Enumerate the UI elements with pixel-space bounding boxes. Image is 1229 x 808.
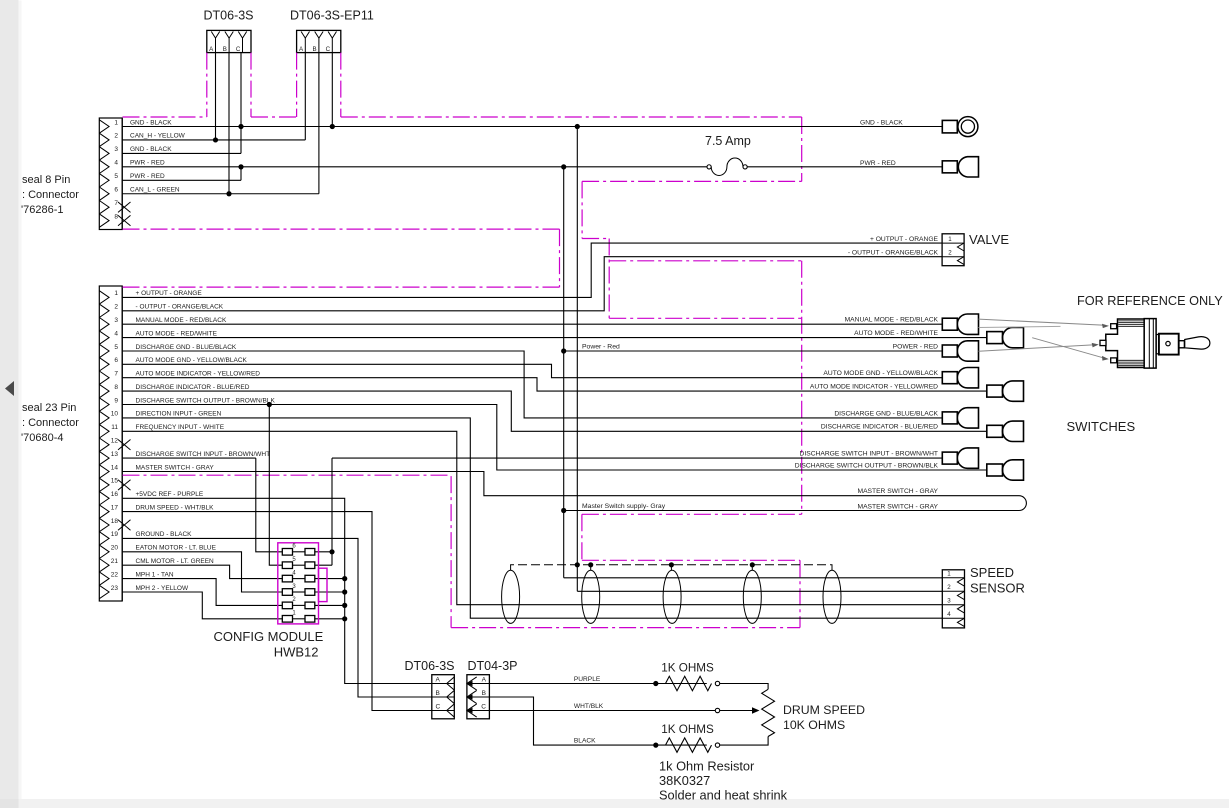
svg-text:6: 6 xyxy=(114,357,118,364)
8-pin pin 8 xyxy=(99,214,109,227)
svg-text:4: 4 xyxy=(114,160,118,167)
svg-text:1k Ohm Resistor: 1k Ohm Resistor xyxy=(659,759,755,774)
svg-text:14: 14 xyxy=(111,464,119,471)
wire resistor R1 to pot top xyxy=(720,684,768,690)
svg-text:1: 1 xyxy=(948,236,952,243)
wire DT06-3S-EP11 A stub xyxy=(304,53,306,140)
8-pin pin 1 xyxy=(99,120,109,133)
wire sensor 2 (ground) from trunk xyxy=(577,590,942,592)
svg-text:AUTO MODE INDICATOR - YELLOW/R: AUTO MODE INDICATOR - YELLOW/RED xyxy=(810,384,938,391)
svg-text:6: 6 xyxy=(114,187,118,194)
svg-text:A: A xyxy=(482,677,487,684)
svg-text:MPH 2 - YELLOW: MPH 2 - YELLOW xyxy=(136,585,189,592)
23-pin pin 12 xyxy=(99,438,109,451)
wire pin13 drop to config row6 xyxy=(256,458,282,552)
svg-text:DRUM SPEED - WHT/BLK: DRUM SPEED - WHT/BLK xyxy=(136,504,215,511)
23-pin pin 18 xyxy=(99,518,109,531)
bullet terminal PWR xyxy=(942,161,957,173)
left grey sidebar xyxy=(0,0,19,801)
svg-text:15: 15 xyxy=(111,478,119,485)
svg-text:GND - BLACK: GND - BLACK xyxy=(860,119,903,126)
terminal DISCHARGE SWITCH OUTPUT xyxy=(987,464,1003,476)
wire AUTO MODE GND pin6 jog xyxy=(122,364,942,377)
23-pin pin 10 xyxy=(99,411,109,424)
wire DISCHARGE INDICATOR pin8 jog xyxy=(122,391,987,431)
terminal DISCHARGE SWITCH INPUT xyxy=(942,452,957,464)
svg-text:11: 11 xyxy=(111,424,118,431)
23-pin pin 22 xyxy=(99,572,109,585)
8-pin pin 5 xyxy=(99,174,109,187)
wire pin21 CML to config row4 xyxy=(122,565,282,578)
svg-text:C: C xyxy=(236,46,241,53)
svg-text:DT06-3S: DT06-3S xyxy=(204,9,254,23)
svg-text:8: 8 xyxy=(114,213,118,220)
svg-text:+5VDC REF - PURPLE: +5VDC REF - PURPLE xyxy=(136,491,204,498)
svg-text:: Connector: : Connector xyxy=(22,417,79,429)
svg-text:GND - BLACK: GND - BLACK xyxy=(130,119,172,126)
svg-text:MPH 1 - TAN: MPH 1 - TAN xyxy=(136,571,174,578)
wire config row6/5 bus to DISCHARGE SWITCH INPUT xyxy=(315,458,332,565)
svg-text:1: 1 xyxy=(114,290,118,297)
toggle switch bat lever xyxy=(1185,337,1210,349)
svg-text:22: 22 xyxy=(111,571,119,578)
terminal AUTO MODE xyxy=(987,332,1003,344)
terminal POWER RED xyxy=(942,345,957,357)
svg-text:A: A xyxy=(436,677,441,684)
23-pin pin 5 xyxy=(99,344,109,357)
DT06-3S socket C xyxy=(238,32,246,39)
svg-text:DISCHARGE SWITCH INPUT - BROWN: DISCHARGE SWITCH INPUT - BROWN/WHT xyxy=(800,451,938,458)
23-pin pin 21 xyxy=(99,559,109,572)
config jumper row 2 xyxy=(282,602,292,609)
wire trunk PWR vertical xyxy=(563,167,565,578)
toggle switch mounting plate xyxy=(1144,319,1156,369)
DT06-3S socket A xyxy=(211,32,219,39)
wire pin4 PWR-RED to fuse xyxy=(122,166,707,168)
svg-text:C: C xyxy=(326,46,331,53)
wire AUTO MODE pin4 straight xyxy=(122,337,987,339)
sidebar collapse arrow xyxy=(5,381,14,396)
8-pin pin 7 xyxy=(99,201,109,214)
svg-text:18: 18 xyxy=(111,518,119,525)
wire DISCHARGE SWITCH OUTPUT pin9 jog xyxy=(122,405,987,471)
svg-text:DISCHARGE INDICATOR - BLUE/RED: DISCHARGE INDICATOR - BLUE/RED xyxy=(136,384,250,391)
svg-text:GROUND - BLACK: GROUND - BLACK xyxy=(136,531,193,538)
wire MASTER SWITCH pin14 jog and loop xyxy=(122,472,1026,511)
23-pin pin 11 xyxy=(99,425,109,438)
23-pin pin 2 xyxy=(99,304,109,317)
svg-text:B: B xyxy=(436,690,440,697)
wire WHT/BLK from DT04-3P C (wiper) xyxy=(489,710,715,712)
wire pin20 EATON to config row3 xyxy=(122,552,282,592)
wire POWER - RED from trunk xyxy=(564,350,943,352)
svg-text:B: B xyxy=(482,690,486,697)
potentiometer DRUM SPEED 10K OHMS xyxy=(762,689,775,736)
23-pin pin 20 xyxy=(99,545,109,558)
svg-text:12: 12 xyxy=(111,438,119,445)
svg-text:PWR - RED: PWR - RED xyxy=(860,160,896,167)
svg-text:CML MOTOR - LT. GREEN: CML MOTOR - LT. GREEN xyxy=(136,558,215,565)
wire +5VDC bus pin16 to DT06-3S A xyxy=(122,498,432,683)
connector VALVE body xyxy=(942,234,964,266)
cable loom ellipses xyxy=(502,570,520,623)
svg-text:PURPLE: PURPLE xyxy=(574,676,601,683)
config jumper row 1 xyxy=(282,616,292,623)
wire pin1 GND-BLACK to ring terminal xyxy=(122,126,942,128)
svg-text:PWR - RED: PWR - RED xyxy=(130,173,165,180)
svg-text:+ OUTPUT - ORANGE: + OUTPUT - ORANGE xyxy=(136,290,203,297)
svg-text:7: 7 xyxy=(114,371,118,378)
wire AUTO MODE INDICATOR pin7 jog xyxy=(122,378,987,391)
svg-text:DISCHARGE GND - BLUE/BLACK: DISCHARGE GND - BLUE/BLACK xyxy=(136,344,237,351)
toggle switch shaft xyxy=(1179,341,1185,348)
23-pin pin 8 xyxy=(99,384,109,397)
config jumper row 5 xyxy=(282,562,292,569)
wire +OUTPUT-ORANGE pin1 to valve xyxy=(122,243,942,297)
23-pin pin 6 xyxy=(99,358,109,371)
23-pin pin 4 xyxy=(99,331,109,344)
svg-text:C: C xyxy=(436,704,441,711)
svg-text:SPEED: SPEED xyxy=(970,565,1014,580)
svg-text:4: 4 xyxy=(947,611,951,618)
svg-text:7: 7 xyxy=(114,200,118,207)
toggle switch arrows from terminals xyxy=(979,319,1106,325)
svg-text:13: 13 xyxy=(111,451,119,458)
svg-text:'76286-1: '76286-1 xyxy=(21,204,63,216)
wire PURPLE from DT04-3P A xyxy=(489,683,706,685)
svg-text:EATON MOTOR - LT. BLUE: EATON MOTOR - LT. BLUE xyxy=(136,545,217,552)
svg-text:DT06-3S-EP11: DT06-3S-EP11 xyxy=(290,9,374,23)
wire pin2 CAN_H-YELLOW xyxy=(122,139,305,141)
23-pin pin 1 xyxy=(99,291,109,304)
svg-text:GND - BLACK: GND - BLACK xyxy=(130,146,172,153)
svg-text:3: 3 xyxy=(114,146,118,153)
wire pin23 MPH2 to config row1 xyxy=(122,592,282,619)
config jumper row 3 xyxy=(282,589,292,596)
svg-text:CAN_H - YELLOW: CAN_H - YELLOW xyxy=(130,133,186,140)
terminal DISCHARGE INDICATOR xyxy=(987,425,1003,437)
toggle switch body xyxy=(1106,319,1144,368)
8-pin pin 4 xyxy=(99,160,109,173)
wire DT06-3S-EP11 C stub xyxy=(331,53,333,127)
CONFIG MODULE HWB12 outline xyxy=(278,543,319,624)
wire fuse to spade terminal PWR xyxy=(747,166,942,168)
svg-text:3: 3 xyxy=(114,317,118,324)
svg-text:VALVE: VALVE xyxy=(969,232,1009,247)
svg-text:3: 3 xyxy=(947,598,951,605)
connector SPEED SENSOR body xyxy=(942,570,964,628)
23-pin pin 17 xyxy=(99,505,109,518)
svg-text:DISCHARGE GND - BLUE/BLACK: DISCHARGE GND - BLUE/BLACK xyxy=(834,410,938,417)
wire GROUND pin19 to DT06-3S B xyxy=(122,538,432,697)
svg-text:SWITCHES: SWITCHES xyxy=(1067,419,1136,434)
svg-text:DT06-3S: DT06-3S xyxy=(404,659,454,673)
svg-text:5: 5 xyxy=(114,344,118,351)
svg-text:1: 1 xyxy=(947,571,951,578)
svg-text:20: 20 xyxy=(111,545,119,552)
svg-text:9: 9 xyxy=(114,397,118,404)
svg-text:MANUAL MODE - RED/BLACK: MANUAL MODE - RED/BLACK xyxy=(845,317,939,324)
23-pin pin 13 xyxy=(99,451,109,464)
connector DT06-3S-EP11 (top) body xyxy=(297,30,341,52)
svg-text:1: 1 xyxy=(114,119,118,126)
svg-text:WHT/BLK: WHT/BLK xyxy=(574,703,604,710)
wire DISCHARGE GND pin5 jog xyxy=(122,351,942,418)
DT06-3S-EP11 socket C xyxy=(328,32,336,39)
connector DT06-3S (bottom) body xyxy=(432,675,455,719)
svg-text:DRUM SPEED: DRUM SPEED xyxy=(783,703,865,717)
svg-text:2: 2 xyxy=(114,133,118,140)
terminal AUTO MODE INDICATOR xyxy=(987,385,1003,397)
svg-text:DISCHARGE INDICATOR - BLUE/RED: DISCHARGE INDICATOR - BLUE/RED xyxy=(821,424,938,431)
svg-text:7.5 Amp: 7.5 Amp xyxy=(705,134,751,148)
svg-text:HWB12: HWB12 xyxy=(274,644,319,659)
svg-text:Solder and heat shrink: Solder and heat shrink xyxy=(659,788,788,803)
wire pin5 PWR-RED xyxy=(122,179,241,181)
bottom scrollbar strip xyxy=(0,799,1229,808)
wire sensor 1 (power) from trunk xyxy=(564,577,943,579)
wire resistor R2 to pot bottom xyxy=(720,737,768,746)
svg-text:DISCHARGE SWITCH INPUT - BROWN: DISCHARGE SWITCH INPUT - BROWN/WHT xyxy=(136,451,271,458)
svg-text:FOR REFERENCE ONLY: FOR REFERENCE ONLY xyxy=(1077,294,1223,308)
resistor R2 1K OHMS xyxy=(666,738,712,752)
wire pin3 GND-BLACK xyxy=(122,152,241,154)
svg-text:1K OHMS: 1K OHMS xyxy=(661,723,714,736)
svg-text:SENSOR: SENSOR xyxy=(970,580,1025,595)
wire pin6 CAN_L-GREEN xyxy=(122,193,319,195)
svg-text:- OUTPUT - ORANGE/BLACK: - OUTPUT - ORANGE/BLACK xyxy=(848,249,939,256)
svg-text:DISCHARGE SWITCH OUTPUT - BROW: DISCHARGE SWITCH OUTPUT - BROWN/BLK xyxy=(795,462,939,469)
svg-text:10: 10 xyxy=(111,411,119,418)
svg-text:10K OHMS: 10K OHMS xyxy=(783,718,845,732)
8-pin connector body xyxy=(99,118,122,230)
toggle switch bushing step xyxy=(1156,335,1159,354)
config jumper row 4 xyxy=(282,575,292,582)
wire FREQUENCY INPUT pin11 to sensor pin3 xyxy=(122,431,942,604)
svg-text:2: 2 xyxy=(947,584,951,591)
svg-text:+ OUTPUT - ORANGE: + OUTPUT - ORANGE xyxy=(870,236,939,243)
svg-text:17: 17 xyxy=(111,504,119,511)
wire jumper pins 4-5 PWR xyxy=(240,167,242,180)
23-pin pin 15 xyxy=(99,478,109,491)
wire pin9 drop to config row5 xyxy=(269,405,282,566)
svg-text:AUTO MODE - RED/WHITE: AUTO MODE - RED/WHITE xyxy=(854,330,938,337)
svg-text:CAN_L - GREEN: CAN_L - GREEN xyxy=(130,187,180,194)
DT06-3S-EP11 socket A xyxy=(301,32,309,39)
svg-text:seal 23 Pin: seal 23 Pin xyxy=(22,402,76,414)
harness jacket outline (magenta dash-dot) top section xyxy=(123,116,207,118)
wire DT06-3S-EP11 B stub xyxy=(318,53,320,194)
23-pin pin 3 xyxy=(99,318,109,331)
svg-text:Power - Red: Power - Red xyxy=(582,344,620,351)
wire -OUTPUT-ORANGE/BLACK pin2 to valve xyxy=(122,257,942,311)
svg-text:38K0327: 38K0327 xyxy=(659,773,710,788)
svg-text:POWER - RED: POWER - RED xyxy=(893,343,938,350)
resistor R1 1K OHMS xyxy=(666,676,712,690)
connector DT04-3P body xyxy=(467,675,490,719)
DT04-3P pin A xyxy=(467,683,490,685)
wire trunk GND vertical xyxy=(576,127,578,592)
svg-text:1K OHMS: 1K OHMS xyxy=(661,661,714,674)
svg-text:5: 5 xyxy=(114,173,118,180)
wire DT06-3S B stub xyxy=(228,53,230,194)
toggle switch nut xyxy=(1159,334,1179,355)
DT04-3P pin B xyxy=(467,696,490,698)
DT06-3S socket B xyxy=(225,32,233,39)
svg-text:AUTO MODE INDICATOR - YELLOW/R: AUTO MODE INDICATOR - YELLOW/RED xyxy=(136,371,261,378)
svg-text:FREQUENCY INPUT - WHITE: FREQUENCY INPUT - WHITE xyxy=(136,424,225,431)
wire MANUAL MODE pin3 straight xyxy=(122,323,942,325)
svg-text:16: 16 xyxy=(111,491,119,498)
svg-text:DISCHARGE SWITCH OUTPUT - BROW: DISCHARGE SWITCH OUTPUT - BROWN/BLK xyxy=(136,397,276,404)
svg-text:MANUAL MODE - RED/BLACK: MANUAL MODE - RED/BLACK xyxy=(136,317,227,324)
terminal MANUAL MODE xyxy=(942,318,957,330)
svg-text:DT04-3P: DT04-3P xyxy=(467,659,517,673)
svg-text:- OUTPUT - ORANGE/BLACK: - OUTPUT - ORANGE/BLACK xyxy=(136,304,224,311)
svg-text:23: 23 xyxy=(111,585,119,592)
DT06-3S bottom pin C xyxy=(432,710,455,712)
wire DT06-3S C stub / GND jumper pins 1-3 xyxy=(240,53,242,154)
svg-text:AUTO MODE GND - YELLOW/BLACK: AUTO MODE GND - YELLOW/BLACK xyxy=(823,370,938,377)
23-pin pin 19 xyxy=(99,532,109,545)
svg-text:MASTER SWITCH - GRAY: MASTER SWITCH - GRAY xyxy=(858,488,939,495)
terminal AUTO MODE GND xyxy=(942,372,957,384)
ring terminal GND xyxy=(942,120,957,132)
svg-text:MASTER SWITCH - GRAY: MASTER SWITCH - GRAY xyxy=(136,464,215,471)
svg-text:PWR - RED: PWR - RED xyxy=(130,160,165,167)
DT06-3S bottom pin A xyxy=(432,683,455,685)
svg-text:'70680-4: '70680-4 xyxy=(21,432,63,444)
svg-text:8: 8 xyxy=(114,384,118,391)
23-pin pin 9 xyxy=(99,398,109,411)
8-pin pin 3 xyxy=(99,147,109,160)
wire DISCHARGE SWITCH INPUT pin13 left part xyxy=(122,457,256,459)
23-pin pin 7 xyxy=(99,371,109,384)
8-pin pin 6 xyxy=(99,187,109,200)
svg-text:19: 19 xyxy=(111,531,119,538)
23-pin pin 23 xyxy=(99,585,109,598)
8-pin pin 2 xyxy=(99,133,109,146)
wire DISCHARGE SWITCH INPUT right part from config xyxy=(332,457,942,459)
CONFIG MODULE inner bracket xyxy=(319,568,328,601)
DT06-3S-EP11 socket B xyxy=(315,32,323,39)
wire BLACK from DT04-3P B xyxy=(489,697,706,745)
svg-text:BLACK: BLACK xyxy=(574,738,596,745)
svg-text:AUTO MODE GND - YELLOW/BLACK: AUTO MODE GND - YELLOW/BLACK xyxy=(136,357,248,364)
DT04-3P pin C xyxy=(467,710,490,712)
svg-text:21: 21 xyxy=(111,558,119,565)
wire DT06-3S A stub xyxy=(215,53,217,140)
svg-text:B: B xyxy=(313,46,317,53)
wire pin22 MPH1 to config row2 xyxy=(122,579,282,606)
wire DIRECTION INPUT pin10 to sensor pin4 xyxy=(122,418,942,618)
DT06-3S bottom pin B xyxy=(432,696,455,698)
svg-text:4: 4 xyxy=(114,330,118,337)
wire DRUM SPEED pin17 to DT06-3S C xyxy=(122,512,432,711)
connector DT06-3S (top) body xyxy=(207,30,251,52)
wiper arrow xyxy=(720,710,753,712)
svg-text:DIRECTION INPUT - GREEN: DIRECTION INPUT - GREEN xyxy=(136,411,222,418)
23-pin pin 16 xyxy=(99,492,109,505)
svg-text:Master Switch supply- Gray: Master Switch supply- Gray xyxy=(582,503,666,510)
svg-text:MASTER SWITCH - GRAY: MASTER SWITCH - GRAY xyxy=(858,504,939,511)
toggle switch terminal lugs xyxy=(1111,324,1117,329)
23-pin pin 14 xyxy=(99,465,109,478)
svg-text:: Connector: : Connector xyxy=(22,189,79,201)
svg-text:C: C xyxy=(481,704,486,711)
config jumper row 6 xyxy=(282,549,292,556)
svg-text:B: B xyxy=(223,46,227,53)
svg-text:2: 2 xyxy=(114,304,118,311)
svg-text:AUTO MODE - RED/WHITE: AUTO MODE - RED/WHITE xyxy=(136,330,218,337)
23-pin connector body xyxy=(99,286,122,601)
svg-text:2: 2 xyxy=(948,250,952,257)
terminal DISCHARGE GND xyxy=(942,412,957,424)
svg-text:CONFIG MODULE: CONFIG MODULE xyxy=(214,629,324,644)
svg-text:seal 8 Pin: seal 8 Pin xyxy=(22,174,70,186)
shield drain wire (dashed) xyxy=(511,565,832,571)
